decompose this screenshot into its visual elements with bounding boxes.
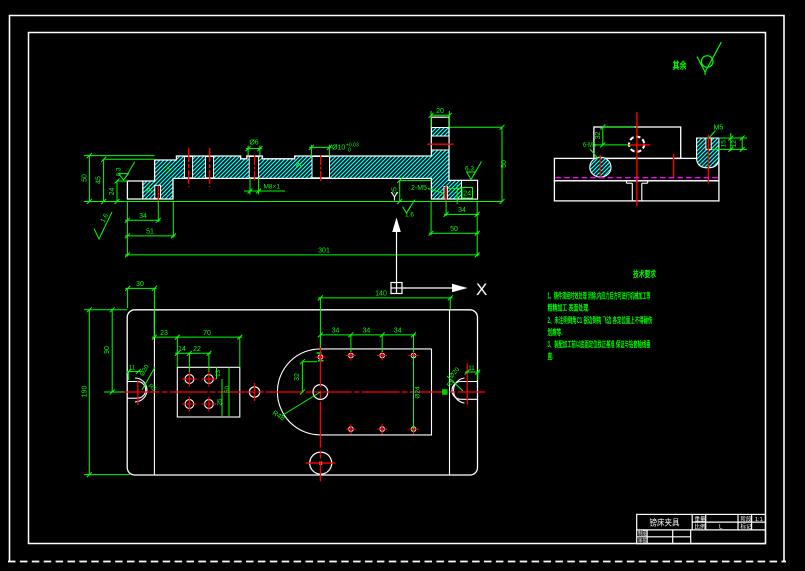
svg-text:Y: Y [391, 190, 399, 204]
svg-text:镑床夹具: 镑床夹具 [650, 518, 680, 528]
small green marks in left block [147, 163, 302, 192]
dim o6 top [246, 146, 262, 156]
svg-text:13: 13 [215, 370, 222, 378]
left slot [127, 378, 147, 402]
right slot dims [447, 372, 480, 391]
red centerline main vertical [636, 112, 638, 206]
svg-text:其余: 其余 [673, 60, 687, 72]
centerline hole 2 [209, 148, 211, 187]
svg-text:审核: 审核 [638, 537, 647, 545]
svg-text:M8×1: M8×1 [264, 184, 281, 191]
dim 22 [189, 353, 211, 372]
dim 30 [125, 288, 156, 309]
dim 190 full height [84, 310, 130, 475]
svg-text:标记: 标记 [741, 523, 753, 531]
base T-slot [626, 181, 647, 201]
hatched section body [143, 117, 478, 199]
bottom hole [310, 452, 332, 474]
svg-text:1:1: 1:1 [755, 517, 763, 523]
red centerline hole horizontal [629, 144, 650, 146]
svg-text:34: 34 [394, 328, 402, 335]
right block void [462, 180, 478, 199]
NOTES technical requirements [548, 269, 657, 361]
o24 vertical dim [413, 356, 415, 430]
PLAN VIEW [82, 281, 486, 481]
TITLE BLOCK [637, 514, 766, 544]
small holes top row [318, 353, 416, 431]
racetrack pocket [277, 349, 431, 435]
dim 140 [318, 298, 453, 348]
svg-text:32: 32 [294, 373, 301, 381]
svg-text:22: 22 [193, 346, 201, 353]
svg-text:50: 50 [450, 226, 458, 233]
left slot dims [126, 367, 155, 390]
svg-text:比例: 比例 [695, 523, 707, 531]
dims 15 12 right [712, 133, 748, 151]
middle band [554, 158, 719, 180]
roughness 1.6 near Y [403, 200, 416, 214]
svg-text:140: 140 [375, 291, 387, 298]
hole gap bar 3 [249, 157, 258, 178]
red vertical centerline [319, 342, 321, 482]
dim 20 tower [431, 111, 466, 127]
4-hole block [177, 367, 240, 417]
svg-text:X: X [476, 280, 487, 299]
svg-text:301: 301 [318, 248, 330, 255]
dim 50 right bottom [429, 202, 479, 236]
red centerline left pin [599, 155, 601, 179]
centerline tower horizontal [427, 143, 454, 145]
svg-text:12: 12 [731, 140, 738, 148]
dims 34x3 [320, 335, 415, 352]
red centerline middle [673, 154, 675, 179]
svg-text:技术要求: 技术要求 [633, 269, 656, 279]
dim 23 [152, 310, 180, 368]
svg-text:重量: 重量 [695, 515, 707, 523]
pin boss hatched oval [590, 157, 611, 177]
svg-text:23: 23 [160, 330, 168, 337]
right block hole gap [444, 187, 447, 200]
dim 70 [177, 337, 242, 367]
svg-text:50: 50 [224, 386, 231, 394]
svg-text:25: 25 [217, 398, 224, 406]
dim 50 right height [466, 127, 502, 201]
R48 leader [282, 392, 320, 416]
svg-text:50: 50 [82, 174, 89, 182]
dim 32 plan [302, 362, 317, 392]
svg-text:11: 11 [468, 365, 475, 372]
svg-text:6-M5: 6-M5 [583, 142, 596, 149]
svg-text:34: 34 [139, 213, 147, 220]
center hole big circle [313, 385, 328, 400]
svg-text:24: 24 [463, 191, 471, 198]
svg-text:直.: 直. [548, 351, 554, 361]
dim 90 [84, 310, 127, 392]
green grips on arc hole [317, 353, 324, 361]
dim 32 [595, 127, 635, 145]
svg-text:1、铸件须经时效处理 消除,内应力后方可进行机械加工等: 1、铸件须经时效处理 消除,内应力后方可进行机械加工等 [548, 291, 651, 301]
svg-text:34: 34 [363, 328, 371, 335]
svg-text:2-M5: 2-M5 [411, 185, 427, 192]
tower gap [431, 136, 449, 150]
svg-text:50: 50 [501, 160, 508, 168]
dim 25 right [400, 180, 432, 201]
svg-text:45: 45 [96, 176, 103, 184]
svg-text:划痕等.: 划痕等. [548, 327, 563, 337]
centerline hole 3 [254, 155, 256, 181]
FRONT SECTION VIEW [82, 108, 508, 299]
svg-text:Ø10: Ø10 [332, 145, 345, 152]
svg-text:1.6: 1.6 [405, 212, 414, 219]
roughness 6.3 left [119, 162, 135, 180]
svg-text:0: 0 [348, 148, 351, 154]
right step line [449, 310, 451, 475]
right slot [452, 378, 478, 403]
dim 34 left bottom [125, 202, 161, 257]
centerline right block hole [445, 186, 447, 204]
centerline hole 1 [188, 148, 190, 187]
dim 301 overall [125, 202, 480, 257]
hole gap (left foot hole) [155, 185, 161, 198]
svg-text:2、未注明倒角C1 锐边倒钝 飞边 各定位面上不得碰伤: 2、未注明倒角C1 锐边倒钝 飞边 各定位面上不得碰伤 [548, 315, 653, 325]
svg-text:阶段: 阶段 [741, 515, 753, 523]
svg-text:粗精加工 表面处理.: 粗精加工 表面处理. [548, 303, 590, 313]
svg-text:24: 24 [109, 188, 116, 196]
dim M8 bottom [244, 178, 285, 195]
svg-text:51: 51 [146, 229, 154, 236]
svg-text:30: 30 [136, 281, 144, 288]
svg-text:34: 34 [332, 328, 340, 335]
svg-text:6.3: 6.3 [465, 166, 474, 173]
tower cap void [431, 117, 449, 127]
dims 13/25/50 right of block [217, 367, 230, 417]
upper block [594, 127, 681, 158]
dim 50 left [84, 156, 502, 202]
svg-text:15: 15 [720, 140, 727, 148]
right hatched boss [697, 138, 719, 168]
middle hole [249, 387, 259, 397]
svg-text:Ø24: Ø24 [415, 386, 422, 398]
svg-text:32: 32 [595, 132, 602, 140]
svg-text:190: 190 [82, 386, 89, 398]
svg-text:3、装配加工前以底面定位找正基准 保证与钻套轴线垂: 3、装配加工前以底面定位找正基准 保证与钻套轴线垂 [548, 339, 651, 349]
svg-text:6.3: 6.3 [116, 167, 123, 176]
svg-text:Ø6: Ø6 [249, 140, 258, 147]
svg-text:70: 70 [203, 330, 211, 337]
svg-text:20: 20 [436, 108, 444, 115]
svg-text:34: 34 [458, 207, 466, 214]
magenta dashed line [556, 177, 719, 179]
centerline foot hole [157, 186, 159, 203]
hole gap bar 2 [205, 157, 213, 178]
base band [554, 181, 719, 201]
boss hole [706, 138, 711, 149]
centerline hole 4 [320, 155, 322, 181]
svg-text:11: 11 [129, 364, 136, 371]
dim 24 left [117, 181, 127, 202]
SIDE SECTION VIEW [554, 112, 747, 206]
paper edge dashed bottom line [8, 561, 786, 563]
plate outline [127, 310, 477, 475]
svg-text:14: 14 [178, 346, 186, 353]
roughness 6.3 right [467, 162, 482, 180]
left lip outline (unhatched) [127, 181, 142, 199]
center hole circle [629, 137, 644, 152]
dim 34 right bottom [444, 203, 479, 217]
left step line [153, 310, 155, 475]
dim 45 left [104, 159, 155, 201]
red centerline right boss [707, 135, 709, 184]
red horizontal centerline [122, 391, 486, 393]
dim 51 left bottom [125, 202, 176, 238]
svg-text:90: 90 [104, 346, 111, 354]
svg-text:制图: 制图 [638, 530, 647, 538]
surface finish symbol top right [673, 42, 722, 75]
roughness 1.6 lower left [94, 212, 112, 239]
hole gap bar 1 [184, 157, 192, 178]
framed dim 24 [462, 188, 473, 199]
dim o10 top [309, 145, 331, 157]
dim 14 [175, 353, 192, 372]
hole gap bar 4 [312, 157, 330, 178]
UCS icon [391, 232, 453, 294]
